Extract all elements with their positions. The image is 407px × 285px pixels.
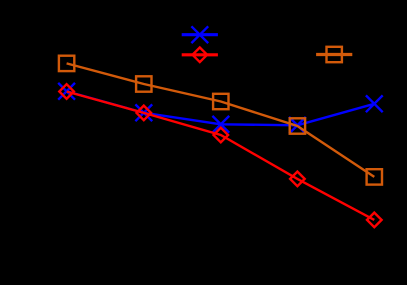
blue x marker P5 — [366, 95, 383, 112]
legend red diamond marker — [193, 48, 208, 63]
orange square marker P2 — [136, 76, 151, 91]
red series line — [67, 92, 375, 220]
blue x marker P3 — [212, 116, 229, 133]
red diamond marker P1 — [59, 84, 74, 99]
red diamond marker P2 — [137, 106, 152, 121]
blue x marker P2 — [135, 104, 152, 121]
blue series line — [67, 91, 375, 125]
blue x marker P4 — [289, 117, 306, 134]
orange square marker P5 — [367, 169, 382, 184]
orange square marker P4 — [290, 118, 305, 133]
blue x marker P1 — [58, 83, 75, 100]
red diamond marker P3 — [214, 128, 229, 143]
orange square marker P3 — [213, 94, 228, 109]
legend red sample line — [182, 53, 218, 56]
legend orange square marker — [327, 47, 342, 62]
orange square marker P1 — [59, 56, 74, 71]
red diamond marker P4 — [290, 172, 305, 187]
legend blue x marker — [191, 26, 208, 43]
red diamond marker P5 — [367, 213, 382, 228]
legend orange sample line — [316, 53, 352, 56]
orange series line — [67, 63, 375, 176]
legend blue sample line — [182, 33, 218, 36]
